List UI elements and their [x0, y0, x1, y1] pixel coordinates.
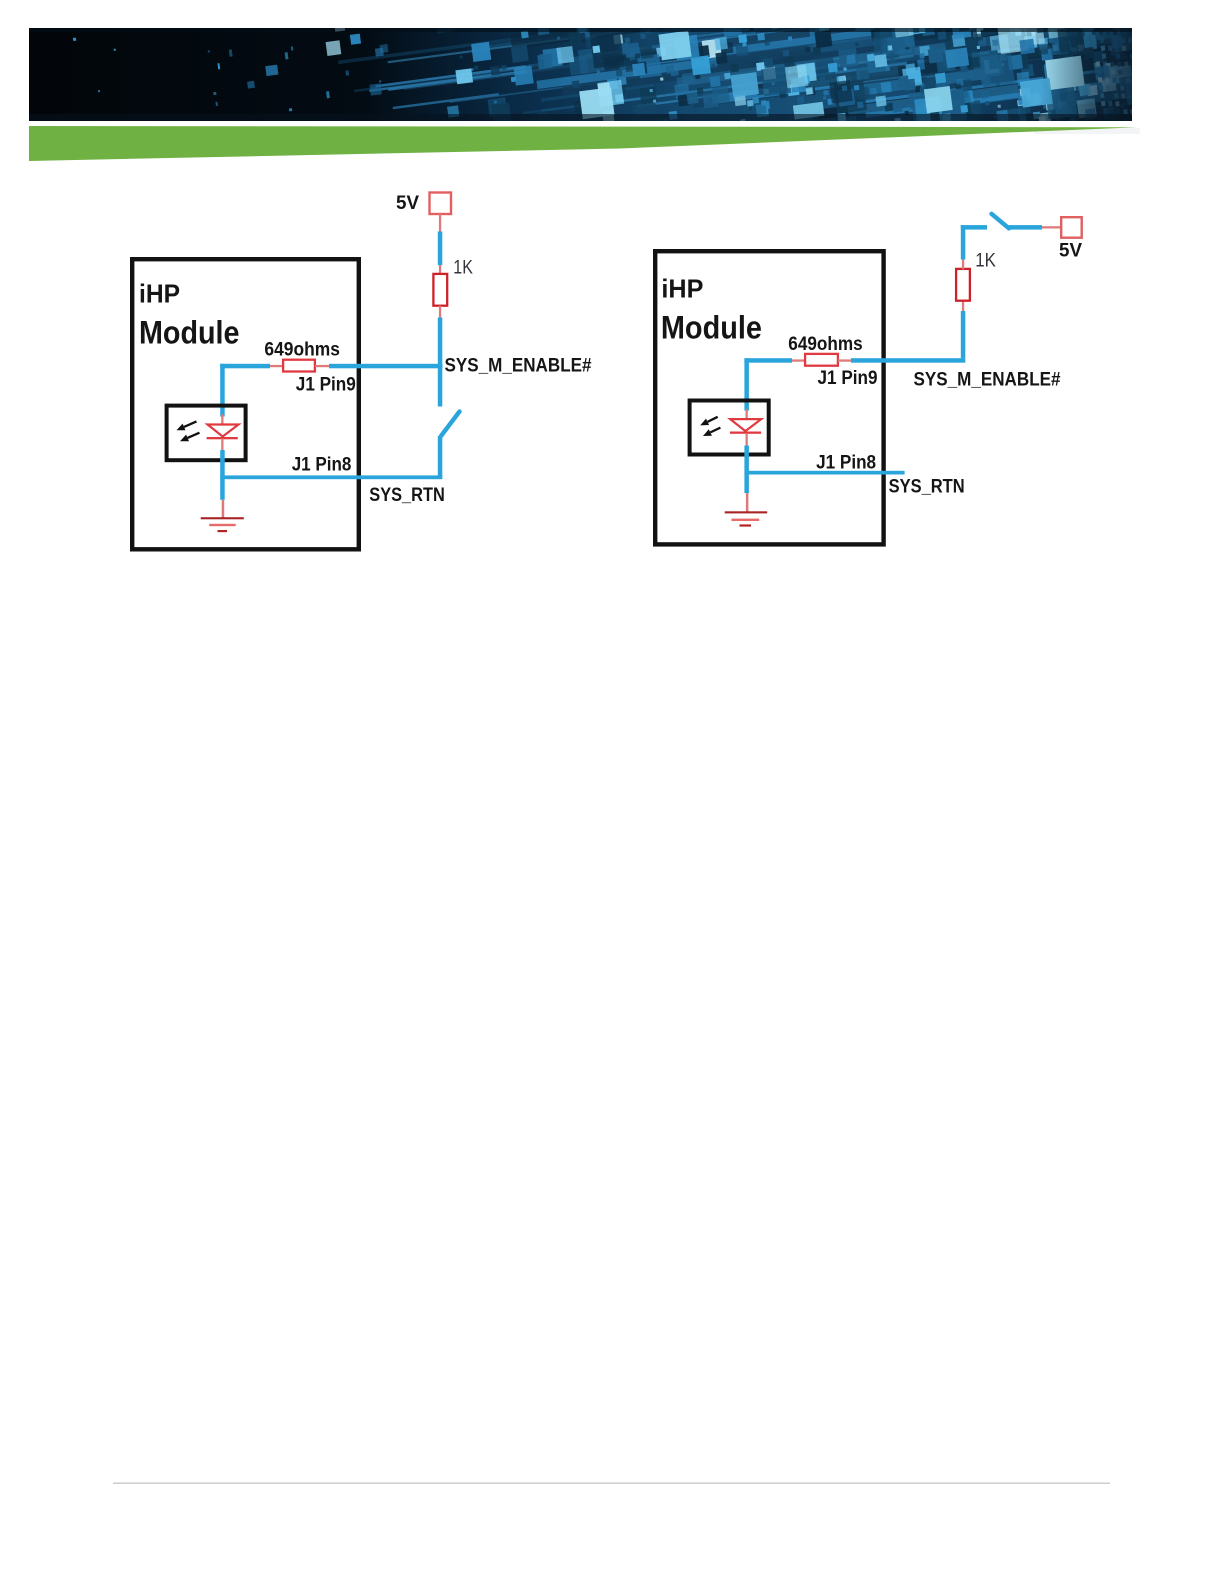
LED cathode bar (left) [207, 437, 238, 439]
resistor 1K (right) [956, 269, 970, 301]
iHP module box (right) [655, 251, 883, 544]
5V terminal square (left) [430, 193, 452, 215]
svg-text:Module: Module [139, 314, 240, 350]
svg-text:649ohms: 649ohms [264, 339, 340, 360]
wire riser vertical (right) [961, 311, 966, 358]
wire pin9 horizontal blue right part (right) [851, 358, 965, 363]
LED diode triangle (right) [730, 419, 761, 431]
svg-text:J1 Pin8: J1 Pin8 [816, 453, 876, 474]
svg-text:5V: 5V [1059, 241, 1082, 262]
wire 5V square to resistor lead (left) [439, 214, 441, 232]
wire switch to 5V square (right) [1008, 225, 1042, 230]
wire pin8 horizontal (right) [745, 471, 905, 475]
svg-text:Module: Module [661, 309, 762, 345]
svg-text:SYS_RTN: SYS_RTN [889, 477, 965, 498]
optocoupler box (right) [690, 401, 769, 455]
LED diode triangle (left) [208, 425, 239, 437]
svg-text:SYS_M_ENABLE#: SYS_M_ENABLE# [445, 356, 592, 377]
svg-text:1K: 1K [975, 251, 996, 272]
svg-text:J1 Pin9: J1 Pin9 [296, 374, 356, 395]
ground symbol (right) [725, 511, 768, 513]
switch arm (left) [441, 412, 460, 437]
wire blue segment above 1K (left) [438, 232, 443, 266]
wire pin8 horizontal (left) [220, 475, 442, 479]
svg-text:iHP: iHP [139, 279, 180, 309]
ground lead (left) [222, 500, 225, 518]
banner image [29, 0, 1224, 258]
svg-text:1K: 1K [453, 257, 473, 278]
svg-text:iHP: iHP [661, 273, 703, 303]
ground lead (right) [746, 493, 749, 512]
footer rule [113, 1483, 1110, 1484]
wire pin9 horizontal blue left part (left) [220, 364, 270, 369]
LED light arrows (left) [184, 421, 197, 427]
wire module-pin vertical (left) [220, 364, 225, 417]
LED anode lead (right) [746, 409, 748, 419]
wire pin9 horizontal blue left part (right) [744, 358, 792, 363]
LED cathode lead (right) [746, 433, 748, 446]
wire top horizontal to switch (right) [961, 225, 987, 230]
LED cathode bar (right) [730, 432, 761, 434]
switch lower leg (left) [438, 436, 443, 479]
5V terminal square (right) [1061, 217, 1082, 238]
resistor 649ohms (left) [283, 360, 315, 372]
switch arm (right) [992, 214, 1010, 229]
LED light arrows (right) [708, 417, 718, 422]
optocoupler box (left) [167, 406, 246, 461]
LED cathode lead (left) [221, 439, 223, 452]
LED anode lead (left) [221, 414, 223, 425]
svg-text:J1 Pin9: J1 Pin9 [818, 368, 878, 389]
resistor 649ohms (right) [805, 354, 838, 366]
svg-text:5V: 5V [396, 193, 419, 214]
wire module-pin vertical (right) [744, 358, 749, 410]
wire riser blue top (right) [961, 225, 966, 259]
wire blue 1K to node (left) [438, 318, 443, 369]
wire cathode to ground (right) [744, 446, 749, 494]
green swoosh band [29, 126, 1138, 161]
switch upper leg (left) [438, 364, 443, 407]
banner right soft shadow [1034, 128, 1140, 134]
svg-text:SYS_RTN: SYS_RTN [369, 485, 445, 506]
svg-text:J1 Pin8: J1 Pin8 [292, 455, 352, 476]
wire lead below 1K (left) [439, 306, 441, 318]
ground symbol (left) [201, 517, 244, 519]
resistor 1K (left) [433, 274, 447, 306]
svg-text:SYS_M_ENABLE#: SYS_M_ENABLE# [914, 369, 1061, 390]
wire pin9 horizontal blue right part (left) [329, 364, 442, 369]
iHP module box (left) [132, 259, 359, 549]
svg-text:649ohms: 649ohms [788, 334, 862, 355]
wire cathode to ground (left) [220, 450, 225, 500]
